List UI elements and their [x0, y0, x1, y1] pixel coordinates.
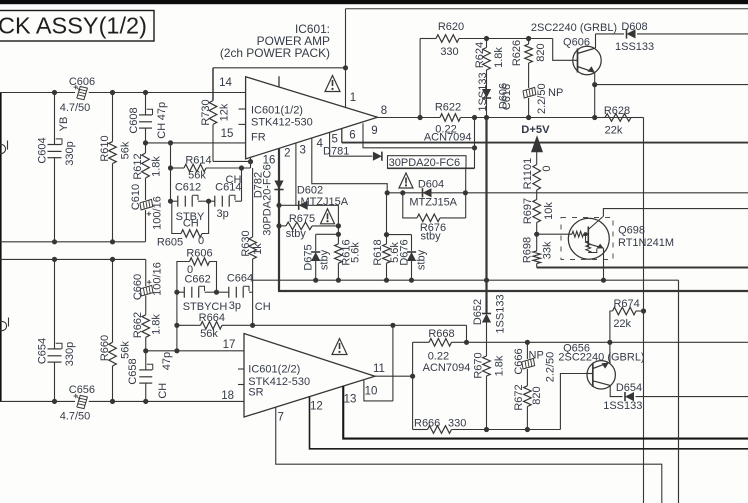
R606 value 0 [187, 264, 193, 276]
zener D602 MTZJ15A [299, 201, 308, 210]
warning symbol near D604 [399, 173, 413, 188]
C666 label [513, 348, 525, 374]
svg-text:7: 7 [277, 412, 283, 424]
svg-text:8: 8 [381, 105, 387, 117]
R676 grade stby [421, 231, 442, 243]
C662 label [184, 274, 210, 286]
svg-text:R620: R620 [438, 21, 464, 33]
svg-text:330p: 330p [64, 141, 76, 165]
svg-text:C616: C616 [501, 84, 513, 110]
D606 label 1SS133 [477, 72, 489, 111]
node: junction C662/C664 [214, 290, 219, 295]
node: junction R662/pin17 [143, 348, 148, 353]
R630 label [240, 230, 252, 256]
svg-text:R668: R668 [428, 328, 454, 340]
node: junction C608/R612/pin15 [143, 140, 148, 145]
node: junction R610/input [110, 90, 115, 95]
C608 label [128, 107, 140, 133]
wire: pin12 route (dark) [310, 397, 748, 449]
svg-text:11: 11 [373, 363, 385, 375]
svg-text:12k: 12k [219, 103, 231, 121]
wire: R620 net top [420, 39, 574, 61]
R674 label [613, 298, 639, 310]
C608 grade CH [156, 123, 168, 139]
svg-text:1SS133: 1SS133 [477, 72, 489, 111]
svg-text:R662: R662 [132, 312, 144, 338]
connector stub at left edge (cut) [0, 141, 8, 154]
wire: R666 net horizontal [413, 374, 587, 430]
wire: R606 loop [177, 262, 217, 293]
Q698 label [618, 224, 645, 236]
thick corner: pin2 bus to lower rail [278, 290, 748, 292]
pin 12 label [310, 401, 323, 413]
C666 value 2.2/50 [545, 352, 557, 383]
capacitor C662 STBY CH [177, 286, 217, 298]
svg-text:R606: R606 [186, 248, 212, 260]
resistor R660 56k [109, 342, 117, 366]
C658 value 47p [161, 352, 173, 370]
resistor R674 22k [610, 307, 644, 342]
D781 label [323, 146, 349, 158]
svg-text:C610: C610 [130, 184, 142, 210]
capacitor C612 STBY CH [171, 195, 209, 207]
D602 type MTZJ15A [300, 196, 348, 208]
svg-text:47p: 47p [156, 102, 168, 120]
resistor R620 330 [436, 35, 459, 43]
capacitor C610 100/16 electrolytic [140, 199, 153, 241]
C616 value 2.2/50 [536, 83, 548, 114]
transistor Q656 2SC2240(GBRL) [587, 361, 615, 389]
svg-text:100/16: 100/16 [152, 196, 164, 230]
R660 label [99, 335, 111, 361]
svg-text:ACN7094: ACN7094 [423, 362, 471, 374]
capacitor C666 2.2/50 NP [522, 342, 535, 386]
svg-text:1.8k: 1.8k [494, 355, 506, 376]
node: junction D604 rail/R676 right [463, 190, 468, 195]
node: R620 net/R626 [526, 36, 531, 41]
R730 value 12k [219, 103, 231, 121]
wire: R660 branch [112, 259, 114, 401]
Q606 label [563, 36, 590, 48]
svg-text:MTZJ15A: MTZJ15A [300, 196, 348, 208]
R626 label [511, 40, 523, 66]
node: junction R618 top [384, 232, 389, 237]
resistor R676 stby [417, 214, 440, 222]
diode D606 1SS133 [482, 89, 491, 118]
R605 value 0 [198, 235, 204, 247]
svg-text:2.2/50: 2.2/50 [536, 83, 548, 114]
svg-text:NP: NP [529, 349, 544, 361]
wire: R668 left riser [412, 342, 414, 429]
capacitor C606 4.7/50 (series in input wire) [74, 85, 88, 100]
C612 label [175, 181, 201, 193]
wire: bias chain vertical [536, 151, 538, 268]
top border bar [0, 0, 748, 4]
node: Q698 base node [534, 232, 539, 237]
node: junction pin17/R664 branch [174, 348, 179, 353]
wire: R618/D676 tops [387, 193, 412, 251]
C616 grade NP [548, 87, 563, 99]
svg-text:C612: C612 [175, 181, 201, 193]
wire: D602 net [279, 205, 338, 226]
svg-text:56k: 56k [200, 328, 218, 340]
pin 2 label [284, 148, 290, 160]
svg-text:D604: D604 [418, 179, 444, 191]
wire: pin17 net horizontal [146, 350, 244, 352]
C612 grade STBY [176, 211, 205, 223]
svg-text:C662: C662 [184, 274, 210, 286]
wire: pin16 to R614 net [242, 162, 251, 168]
svg-text:R698: R698 [522, 237, 534, 263]
wire: R616/D675 tops [316, 226, 339, 251]
svg-text:stby: stby [416, 249, 428, 270]
svg-text:R675: R675 [289, 213, 315, 225]
warning symbol inside IC601(2/2) [332, 339, 347, 355]
D608 label [621, 21, 647, 33]
diode D676 stby [407, 252, 416, 280]
svg-text:47p: 47p [161, 352, 173, 370]
node: junction C604/bottom [52, 239, 57, 244]
node: junction D604 rail/R676 left [400, 190, 405, 195]
R616 value 5.6k [350, 242, 362, 263]
R622 value 0.22 [435, 124, 456, 136]
Q656 type 2SC2240 (GBRL) [558, 351, 644, 363]
svg-text:5.6k: 5.6k [350, 242, 362, 263]
svg-text:R630: R630 [240, 230, 252, 256]
node: stby/D675 [313, 278, 318, 283]
svg-text:100/16: 100/16 [152, 262, 164, 296]
wire: R670 to R666 net [486, 376, 488, 430]
R698 value 33k [542, 241, 554, 259]
node: junction pin15/R614 branch [168, 140, 173, 145]
op-amp IC601(2/2) SR triangle U2 [238, 334, 375, 418]
wire: Q698 emitter drop long [678, 280, 680, 503]
svg-text:CH: CH [226, 174, 242, 186]
wire: pin14 input net (long horizontal) [0, 92, 246, 94]
node: junction C654/bottom [52, 399, 57, 404]
svg-text:1SS133: 1SS133 [603, 400, 642, 412]
D602 label [297, 184, 323, 196]
svg-text:R664: R664 [199, 312, 225, 324]
svg-text:R618: R618 [372, 239, 384, 265]
R666 label [414, 418, 440, 430]
svg-text:3p: 3p [229, 300, 241, 312]
R664 value 56k [200, 328, 218, 340]
resistor R616 5.6k [335, 244, 343, 280]
svg-text:4.7/50: 4.7/50 [60, 102, 91, 114]
node: output/C616 [526, 115, 531, 120]
svg-text:R697: R697 [522, 198, 534, 224]
pin 18 label [221, 390, 234, 402]
pin 10 label [365, 385, 378, 397]
R612 label [132, 153, 144, 179]
node: pin16 junction [248, 159, 253, 164]
wire: Q606 collector up [596, 34, 748, 48]
resistor R697 10k [533, 200, 541, 223]
svg-text:MTZJ15A: MTZJ15A [409, 197, 457, 209]
R697 label [522, 198, 534, 224]
C606 value 4.7/50 [60, 102, 91, 114]
R624 label [474, 42, 486, 68]
node: junction R675/D602 right [336, 223, 341, 228]
wire: emitter rail to right [595, 84, 748, 86]
wire: C658 branch [145, 351, 147, 402]
svg-text:30PDA20-FC6: 30PDA20-FC6 [389, 157, 461, 169]
node: R674/long vertical [641, 308, 646, 313]
svg-text:1.8k: 1.8k [493, 47, 505, 68]
R668 type ACN7094 [423, 362, 471, 374]
pin 9 label [371, 125, 377, 137]
R610 label [99, 135, 111, 161]
R624 value 1.8k [493, 47, 505, 68]
svg-text:IC601(2/2): IC601(2/2) [248, 364, 300, 376]
wire: R676 bypass loop [403, 168, 466, 218]
R676 label [420, 222, 446, 234]
node: stby/D676 [409, 278, 414, 283]
R697 value 10k [543, 202, 555, 220]
svg-text:stby: stby [286, 228, 307, 240]
D782 label [253, 172, 265, 198]
svg-text:C608: C608 [128, 107, 140, 133]
node: junction R660/bottom [110, 399, 115, 404]
resistor R605 0 [181, 230, 202, 238]
svg-text:56k: 56k [120, 141, 132, 159]
R616 label [341, 239, 353, 265]
D676 grade stby [416, 249, 428, 270]
svg-text:CH: CH [156, 123, 168, 139]
svg-text:R622: R622 [435, 102, 461, 114]
svg-text:D602: D602 [297, 184, 323, 196]
svg-text:17: 17 [223, 339, 236, 351]
node: junction C614 top [239, 165, 244, 170]
R620 label [438, 21, 464, 33]
wire: pin5 route [330, 132, 373, 156]
svg-text:CH: CH [183, 218, 199, 230]
svg-text:D676: D676 [399, 239, 411, 265]
wire: Q698 emitter drop [603, 248, 605, 280]
wire: pin10/pin11 riser [392, 325, 394, 401]
wire: R628 drop long vertical [643, 118, 645, 503]
svg-text:D652: D652 [472, 299, 484, 325]
C604 label [37, 137, 49, 163]
wire: pin15 net horizontal [146, 142, 246, 144]
C612 grade CH [183, 218, 199, 230]
svg-text:CK ASSY(1/2): CK ASSY(1/2) [0, 13, 147, 39]
Q656 label [563, 343, 590, 355]
transistor Q606 2SC2240(GRBL) [573, 46, 601, 74]
capacitor C608 CH 47p [139, 109, 153, 128]
svg-text:R730: R730 [200, 99, 212, 125]
R672 label [513, 384, 525, 410]
pin 7 label [277, 412, 283, 424]
R1101 label [522, 158, 534, 190]
wire: C604 branch vertical [54, 93, 56, 242]
C660 label [132, 274, 144, 300]
Q698 type RT1N241M [618, 237, 674, 249]
node: output/D606 bus [484, 115, 489, 120]
node: junction R664/vert [174, 323, 179, 328]
svg-text:SR: SR [248, 387, 263, 399]
capacitor C616 2.2/50 NP [523, 87, 536, 117]
node: stby/D652 bus [484, 278, 489, 283]
C608 value 47p [156, 102, 168, 120]
wire: D652 to R670 [486, 323, 488, 357]
svg-text:R605: R605 [157, 237, 183, 249]
node: junction D604 rail/pin4 [385, 190, 390, 195]
R605 label [157, 237, 183, 249]
wire: D606 stby bus thick [485, 118, 487, 314]
power arrow D+5V [531, 135, 543, 152]
wire: SR upper net horizontal [0, 258, 146, 260]
svg-text:13: 13 [344, 394, 357, 406]
resistor R630 1k [249, 237, 257, 259]
pin 3 label [299, 145, 305, 157]
svg-text:22k: 22k [605, 125, 623, 137]
R672 value 820 [531, 386, 543, 404]
wire: R664 branch vertical [176, 292, 178, 351]
R666 value 330 [448, 418, 466, 430]
svg-text:12: 12 [310, 401, 323, 413]
C656 value 4.7/50 [60, 410, 91, 422]
D782 type 30PDA20-FC6 [262, 164, 274, 236]
D675 label [303, 244, 315, 270]
wire: pin13 route (dark thick) [343, 386, 748, 439]
svg-text:22k: 22k [613, 318, 631, 330]
C614 label [215, 181, 241, 193]
R660 value 56k [120, 341, 132, 359]
C610 value 100/16 [152, 196, 164, 230]
svg-text:C606: C606 [69, 76, 95, 88]
svg-text:R610: R610 [99, 135, 111, 161]
node: R668 net/C666 [525, 340, 530, 345]
svg-text:R674: R674 [613, 298, 639, 310]
C604 value 330p [64, 141, 76, 165]
svg-text:1SS133: 1SS133 [615, 41, 654, 53]
svg-text:330p: 330p [64, 342, 76, 366]
capacitor C654 330p [48, 343, 63, 362]
svg-text:NP: NP [548, 87, 563, 99]
wire: pin2 stub above triangle [0, 0, 1, 1]
node: junction C658/bottom [143, 399, 148, 404]
C656 label [69, 384, 95, 396]
R662 value 1.8k [151, 314, 163, 335]
R668 value 0.22 [428, 351, 449, 363]
svg-text:1: 1 [350, 92, 356, 104]
R618 label [372, 239, 384, 265]
wire: C660 branch [145, 259, 147, 314]
svg-text:CH: CH [255, 301, 271, 313]
title box PACK ASSY(1/2) [0, 11, 154, 42]
svg-text:Q606: Q606 [563, 36, 590, 48]
R730 label [200, 99, 212, 125]
diode D608 1SS133 [627, 29, 636, 38]
pin 11 label [373, 363, 385, 375]
svg-text:0.22: 0.22 [428, 351, 449, 363]
pin 14 label [219, 77, 232, 89]
pin 13 label [344, 394, 357, 406]
wire: SR output stub [375, 375, 413, 377]
R674 value 22k [613, 318, 631, 330]
resistor R612 1.8k [142, 143, 150, 200]
wire: Q698 collector to right rail [603, 209, 748, 217]
wire: Q606 emitter down [594, 72, 596, 117]
wire: R610 branch vertical [112, 93, 114, 242]
wire: FR output net [378, 117, 644, 119]
C664 value 3p [229, 300, 241, 312]
svg-text:R660: R660 [99, 335, 111, 361]
resistor R672 820 [524, 386, 532, 430]
resistor R626 820 [525, 39, 533, 89]
warning symbol inside IC601(1/2) [325, 76, 340, 92]
svg-text:C654: C654 [37, 338, 49, 364]
wire: R630 down to stby net [252, 259, 254, 325]
resistor R624 1.8k [483, 39, 491, 90]
diode D654 1SS133 [625, 392, 634, 401]
IC601 heading text [220, 22, 330, 60]
node: output/sense [472, 115, 477, 120]
svg-text:9: 9 [371, 125, 377, 137]
left border bar [0, 92, 2, 402]
wire: R675 net [279, 225, 338, 227]
wire: pin1 riser [345, 9, 347, 108]
R610 value 56k [120, 141, 132, 159]
wire: C654 branch [54, 259, 56, 401]
svg-text:RT1N241M: RT1N241M [618, 237, 674, 249]
resistor R622 0.22 [440, 114, 461, 122]
D652 type 1SS133 [495, 294, 507, 333]
C614 value 3p [216, 208, 228, 220]
resistor R628 22k [595, 114, 644, 122]
svg-text:820: 820 [535, 43, 547, 61]
capacitor C604 330p [48, 139, 63, 158]
resistor R618 5.6k [383, 244, 391, 280]
R698 label [522, 237, 534, 263]
svg-text:C664: C664 [227, 273, 253, 285]
svg-text:C604: C604 [37, 137, 49, 163]
wire: pin3 drop [295, 143, 297, 205]
node: R668 net/feedback riser [464, 340, 469, 345]
resistor R675 stby [286, 222, 312, 230]
svg-text:2: 2 [284, 148, 290, 160]
resistor R698 33k [533, 251, 541, 264]
power label D+5V [521, 124, 550, 136]
node: junction C612/C614 [206, 199, 211, 204]
R612 value 1.8k [151, 156, 163, 177]
svg-text:10: 10 [365, 385, 378, 397]
wire: R614 net horizontal [171, 167, 242, 169]
Q606 type 2SC2240 (GRBL) [531, 22, 617, 34]
warning symbol near D602 [321, 209, 335, 224]
wire: pin16 stub [250, 157, 252, 161]
wire: pin6 D+5V rail (thick) [342, 129, 748, 143]
svg-text:2.2/50: 2.2/50 [545, 352, 557, 383]
node: stby/R616 [336, 278, 341, 283]
pin 1 label [350, 92, 356, 104]
svg-text:1k: 1k [252, 243, 264, 255]
capacitor C660 100/16 electrolytic [140, 280, 153, 296]
D604 label [418, 179, 444, 191]
diode D652 1SS133 [482, 314, 491, 323]
wire: pin4 route [312, 138, 387, 193]
node: junction C604/input [52, 90, 57, 95]
svg-text:1SS133: 1SS133 [495, 294, 507, 333]
svg-text:YB: YB [58, 117, 70, 132]
wire: pin10 route [364, 380, 393, 401]
node: output SR junction [410, 374, 415, 379]
svg-text:D608: D608 [621, 21, 647, 33]
pin 6 label [349, 129, 355, 141]
wire: pin14 corner feed [213, 68, 346, 101]
